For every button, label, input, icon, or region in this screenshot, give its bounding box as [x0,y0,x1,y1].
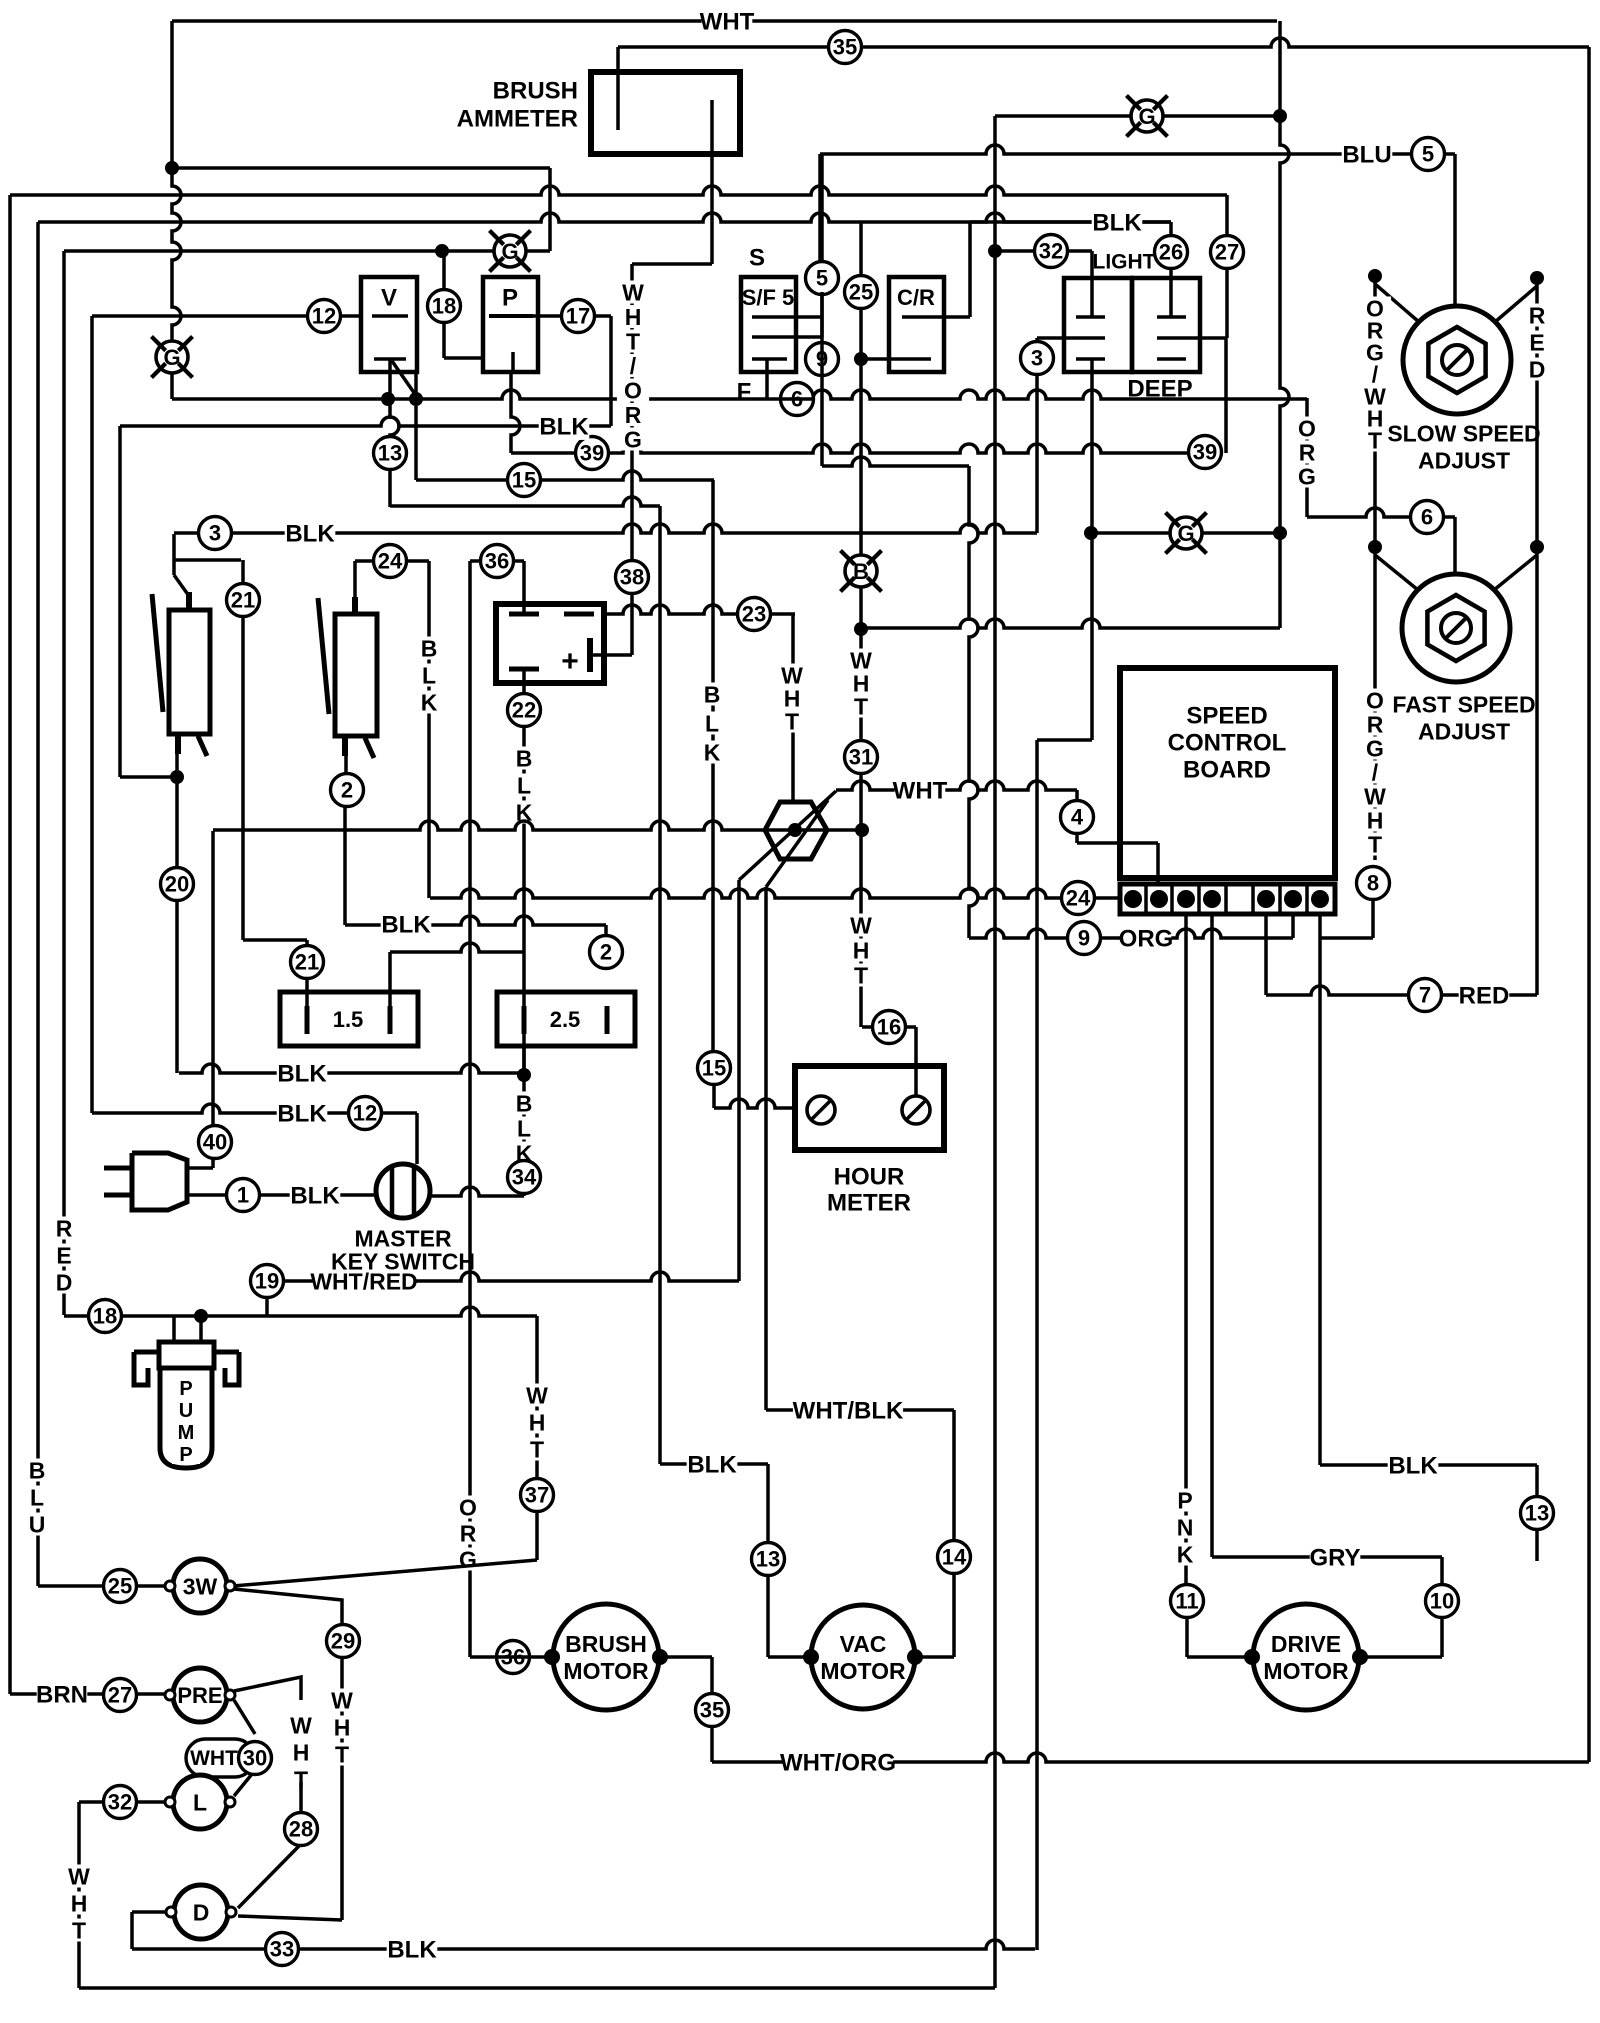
node x995 y251 [988,244,1002,258]
wire WHT line y790 [836,781,1077,790]
svg-text:O: O [1298,415,1316,441]
connector 37 [521,1479,554,1512]
component fast speed pot [1402,574,1510,682]
wire 12 line y316 [92,314,362,318]
wire 13 right drop [1535,1465,1539,1561]
label S/F5 [742,285,795,310]
label ORG right vertical [1291,415,1323,489]
label BLU left vertical [21,1457,53,1537]
node drive right [1352,1649,1368,1665]
component LIGHT/DEEP box right [1132,278,1200,372]
wire 11 to drive [1187,1617,1252,1657]
wire 24 to CB2 [355,561,373,597]
wire fuse15 right riser [388,952,392,1006]
svg-text:G: G [163,345,180,370]
svg-text:CONTROL: CONTROL [1168,730,1287,757]
label ORG x470 [452,1494,484,1572]
label SLOW SPEED ADJUST [1387,420,1540,473]
connector 20 [161,868,194,901]
wire 4 to t2 [1077,843,1158,885]
label WHT/BLK [793,1396,904,1425]
svg-text:L: L [517,1115,531,1141]
connector 6 left [781,383,814,416]
svg-text:L: L [30,1484,44,1510]
wire RED column upper [1535,278,1539,547]
lamp G left [151,336,192,377]
svg-text:1: 1 [237,1183,249,1208]
svg-text:W: W [850,912,872,938]
svg-text:P: P [1177,1487,1192,1513]
wire ammeter to WHT/ORG col [632,262,712,266]
component wall plug [104,1153,187,1210]
wire y195 bus [10,186,1227,195]
svg-text:L: L [517,772,531,798]
connector 32 top [1035,235,1068,268]
svg-text:W: W [1364,783,1386,809]
svg-text:3: 3 [1031,346,1043,371]
label BLK mid [687,1450,738,1479]
svg-text:BLK: BLK [539,414,589,441]
svg-text:ORG: ORG [1119,926,1174,953]
svg-text:O: O [1366,687,1384,713]
wire BLK 13 line [1320,1463,1537,1467]
svg-text:17: 17 [566,304,590,329]
svg-text:21: 21 [231,588,255,613]
label DEEP [1127,376,1192,403]
wire 16 line [862,1025,916,1029]
pin LD left tick2 [1037,336,1105,340]
node junction x172 y168 [165,161,179,175]
connector 5 left [806,262,839,295]
wire ORG/WHT column upper [1373,276,1377,547]
svg-text:R: R [460,1520,477,1546]
wire x820 riser [818,154,822,262]
wire x713 column [711,480,715,1068]
wire 22cb drop x1092 [1090,359,1094,533]
svg-text:D: D [1529,356,1546,382]
connector 28 [285,1813,318,1846]
node junction y251 x442 [435,244,449,258]
svg-text:R: R [1529,302,1546,328]
component LIGHT/DEEP box left [1064,278,1132,372]
svg-text:G: G [1298,463,1316,489]
svg-text:BLK: BLK [687,1452,737,1479]
connector 35 top [829,31,862,64]
wire 15 to hour meter [714,1084,795,1108]
label WHT x342 [326,1687,358,1767]
svg-text:6: 6 [1421,505,1433,530]
connector 19 [251,1265,284,1298]
pin V left tick [372,314,408,318]
node drive left [1244,1649,1260,1665]
svg-text:W: W [622,279,644,305]
label WHT x79 [63,1863,95,1943]
svg-text:G: G [501,239,518,264]
label WHT x301 [285,1712,317,1792]
connector 18 bottom [89,1300,122,1333]
pin LD left tick3 [1076,357,1105,361]
wire fuse25 left drop [522,1046,526,1075]
svg-text:B: B [516,745,533,771]
component V switch box [361,277,417,372]
connector 15 top [508,464,541,497]
wire BLK line y1073 [179,1064,524,1073]
svg-text:W: W [68,1863,90,1889]
component WHT 30 oval [186,1739,254,1777]
wire 26 drop [1169,222,1173,317]
wire x92 frame [90,316,94,1113]
svg-text:FAST SPEED: FAST SPEED [1392,691,1535,717]
wire P bottom drop [511,372,520,453]
wire 23 riser x793 [791,614,795,802]
label FAST SPEED ADJUST [1392,691,1535,744]
svg-text:G: G [624,426,642,452]
connector 39 right [1189,436,1222,469]
wire WHT/BLK line [766,1408,954,1412]
wire 36 top links [470,561,524,614]
component fuse 1.5 [280,992,418,1046]
node x1280 y534 [1273,526,1287,540]
wire x38 frame [36,222,40,1586]
svg-text:16: 16 [877,1015,901,1040]
wire t4 GRY column [1210,912,1214,1557]
component PRE switch [165,1668,235,1722]
wire 14 to vac [915,1655,954,1659]
component circuit breaker CB1 [152,592,210,756]
pin battery bar [587,638,593,672]
wire 8 to board [1320,899,1373,938]
wire 20 column [175,777,179,1073]
svg-text:G: G [1138,104,1155,129]
svg-text:BLK: BLK [387,1937,437,1964]
svg-text:H: H [625,304,642,330]
pin ammeter left [616,47,620,130]
svg-text:L: L [705,710,719,736]
wire WHT column x537 [535,1316,539,1560]
wire 23 line y614 [605,605,795,614]
svg-text:13: 13 [756,1547,780,1572]
wire 37 to 3W [233,1560,537,1586]
label LIGHT [1093,251,1156,274]
component S/F5 box [741,277,796,372]
connector 25 bottom [104,1570,137,1603]
svg-text:3W: 3W [183,1573,218,1599]
svg-text:ADJUST: ADJUST [1418,718,1510,744]
connector 8 [1357,867,1390,900]
svg-text:SLOW SPEED: SLOW SPEED [1387,420,1540,446]
svg-text:40: 40 [203,1130,227,1155]
label WHT/RED [310,1268,417,1294]
svg-text:22: 22 [512,698,536,723]
svg-text:21: 21 [295,950,319,975]
svg-text:3: 3 [209,521,221,546]
svg-text:35: 35 [833,35,857,60]
svg-text:23: 23 [742,602,766,627]
svg-text:H: H [853,937,870,963]
wire x10 frame [8,195,12,1694]
wire 13 drop x390 [390,399,399,507]
wire 33 BLK line [132,1940,1035,1949]
label BLK y925 [381,910,432,939]
label BLK y1195 [290,1181,341,1210]
svg-text:W: W [331,1687,353,1713]
connector 11 [1171,1585,1204,1618]
lamp G mid right [1165,512,1206,553]
pin LD right tick1 [1157,315,1186,319]
svg-text:WHT: WHT [700,9,755,36]
wire BLK line y426 [120,417,611,426]
label S [749,245,765,272]
svg-text:T: T [72,1917,86,1943]
wire 12 BLK line y1113 [92,1104,417,1113]
wire BLK 2 line y925 [345,916,606,925]
svg-text:2.5: 2.5 [550,1007,581,1032]
connector 27 bottom [104,1679,137,1712]
label MASTER KEY SWITCH [331,1225,475,1274]
svg-text:39: 39 [1193,440,1217,465]
wire x470 column [468,561,472,1657]
node x861 y359 [854,352,868,366]
wire x550 riser [548,168,552,251]
svg-text:F: F [737,379,752,406]
svg-text:O: O [459,1494,477,1520]
connector 4 [1061,801,1094,834]
wire 35 to WHT/ORG [710,1726,714,1762]
wire GRY to 10 [1440,1557,1444,1585]
svg-text:37: 37 [525,1483,549,1508]
connector 9 left [806,343,839,376]
svg-text:BLU: BLU [1342,142,1391,169]
svg-text:HOUR: HOUR [834,1164,905,1191]
component pump [134,1316,239,1468]
connector 16 [873,1011,906,1044]
wire y628 line [861,619,1280,628]
component drive motor [1253,1604,1359,1710]
pin SF5 tick2 [752,335,822,339]
wire BLU line y154 [820,145,1455,154]
wire x766 column [764,887,768,1410]
node x861 y628 [854,622,868,636]
label BLK y534 [285,519,336,548]
svg-text:D: D [56,1269,73,1295]
svg-text:33: 33 [270,1937,294,1962]
label BLK x524 b [508,1090,540,1166]
label SPEED CONTROL BOARD [1168,703,1287,784]
label WHT x861 a [845,647,877,719]
connector 21 bottom [291,946,324,979]
wire 6 to fast pot [1453,517,1457,574]
svg-text:P: P [502,285,518,312]
label WHT x537 [521,1382,553,1462]
svg-text:19: 19 [255,1269,279,1294]
svg-text:32: 32 [108,1790,132,1815]
wire RED column lower [1535,547,1539,995]
component hour meter box [795,1066,944,1150]
label BRN [36,1680,88,1709]
pin SF5 tick1 [752,315,822,319]
svg-text:T: T [530,1436,544,1462]
connector 1 [227,1179,260,1212]
label BLK y1073 [277,1059,328,1088]
svg-text:S: S [749,245,765,272]
svg-text:M: M [178,1422,195,1444]
svg-text:T: T [1368,427,1382,453]
svg-text:1.5: 1.5 [333,1007,364,1032]
label WHT/ORG vertical [617,279,649,452]
connector 17 [562,300,595,333]
svg-text:10: 10 [1430,1589,1454,1614]
wire 22 column [522,669,526,1075]
connector 15 bottom [698,1052,731,1085]
pin P left tick [489,314,533,318]
pin LD left tick1 [1076,315,1105,319]
svg-text:H: H [293,1739,310,1765]
wire 28 to D [238,1846,299,1908]
svg-text:WHT: WHT [190,1747,238,1770]
label plus [561,645,579,678]
svg-text:BOARD: BOARD [1183,757,1271,784]
connector 36 top [481,545,514,578]
label V [381,285,397,312]
label BLK top right [1092,208,1143,237]
wire G to corner [170,373,174,399]
wire 30 to L [234,1774,252,1796]
wire ORG/WHT column lower [1373,547,1377,860]
pin ammeter right [710,100,714,264]
svg-text:BRUSH: BRUSH [565,1631,647,1657]
svg-text:BLK: BLK [277,1061,327,1088]
label PNK [1169,1487,1201,1567]
connector 30 [239,1742,272,1775]
connector 24 top [374,545,407,578]
svg-text:/: / [630,353,637,379]
wire jog x1092 [1037,533,1092,1950]
wire 29 to D [238,1916,342,1920]
wire 17 line [533,314,611,318]
wire 3W to 29 [234,1589,342,1625]
wire 5 drop [820,154,824,337]
wire 13 to x660 [390,497,660,506]
svg-text:27: 27 [1215,240,1239,265]
node brush left [544,1649,560,1665]
wire G line y534 [1091,531,1280,535]
svg-text:K: K [1177,1541,1194,1567]
wire BLK 13 mid line [660,1462,768,1466]
connector 13 mid [752,1543,785,1576]
wire 21 to fuse [243,940,307,1006]
svg-text:35: 35 [700,1698,724,1723]
svg-text:H: H [334,1714,351,1740]
svg-text:32: 32 [1039,239,1063,264]
svg-text:G: G [1177,521,1194,546]
connector 13 top [374,437,407,470]
pin fast pot right [1494,540,1544,590]
wire hex diag A [739,791,836,880]
svg-text:WHT/BLK: WHT/BLK [793,1398,904,1425]
svg-text:L: L [422,662,436,688]
wire 12 to switch [415,1113,419,1164]
wire hex diag B [766,800,828,887]
connector 31 [845,741,878,774]
wire main bus y397 [172,390,1307,399]
connector 10 [1426,1585,1459,1618]
component charger box [496,604,604,683]
svg-text:27: 27 [108,1683,132,1708]
connector 2 bottom [590,936,623,969]
node brush right [652,1649,668,1665]
wire 21 drop [241,560,245,584]
connector 13 right [1521,1497,1554,1530]
label GRY [1309,1543,1360,1572]
svg-text:25: 25 [108,1574,132,1599]
label BRUSH AMMETER [457,78,578,133]
svg-text:H: H [1367,807,1384,833]
wire 29 column [340,1657,344,1920]
wire BLK 26 line y222 [970,220,1171,224]
svg-text:24: 24 [1066,886,1091,911]
node CB1 junction [170,770,184,784]
component brush motor [553,1604,659,1710]
svg-text:WHT/RED: WHT/RED [310,1268,417,1294]
svg-text:E: E [1529,329,1544,355]
label ORG y938 [1119,924,1174,953]
lamp B [840,550,881,591]
component circuit breaker CB2 [318,597,377,758]
connector 5 right [1412,138,1445,171]
wire V bottom to node [388,359,392,399]
wire x79 WHT column [77,1802,81,1988]
wire left riser x172 top [170,21,174,168]
connector 39 left [576,437,609,470]
svg-text:BLK: BLK [381,912,431,939]
connector 3 right [1021,342,1054,375]
pin V bottom tick [374,357,406,361]
wire x1280 column [1280,21,1289,628]
wire 38 column [630,264,634,655]
wire 2 link down [604,925,608,936]
wire 17 riser x611 [609,316,613,426]
wire x660 column [658,506,662,1464]
wire x995 long column [993,116,997,1988]
svg-text:BLK: BLK [277,1101,327,1128]
wire switch to 34 [428,1187,524,1196]
label ORG/WHT upper [1359,295,1391,453]
wire y466 line [822,457,969,466]
node V out a [381,392,395,406]
pin SF5 tick3 [752,357,787,361]
svg-text:DRIVE: DRIVE [1271,1631,1341,1657]
wire CB2 bottom to 2 [344,756,348,774]
svg-text:2: 2 [341,778,353,803]
wire 10 to drive [1360,1617,1442,1657]
svg-text:T: T [785,708,799,734]
wire top WHT bus [172,19,1277,23]
svg-text:DEEP: DEEP [1127,376,1192,403]
wire x969 column [969,466,978,938]
wire 32 line [995,251,1092,317]
component 3W switch [165,1559,235,1613]
svg-text:8: 8 [1367,871,1379,896]
svg-text:P: P [179,1378,192,1400]
node x1091 y534 [1084,526,1098,540]
wire 19 drop [265,1297,269,1316]
connector 33 [266,1933,299,1966]
connector 36 bottom [497,1641,530,1674]
pin CR top tick [902,315,970,319]
svg-text:R: R [1367,711,1384,737]
wire ORG riser right [1305,398,1309,517]
wire y222 bus [38,213,1171,222]
